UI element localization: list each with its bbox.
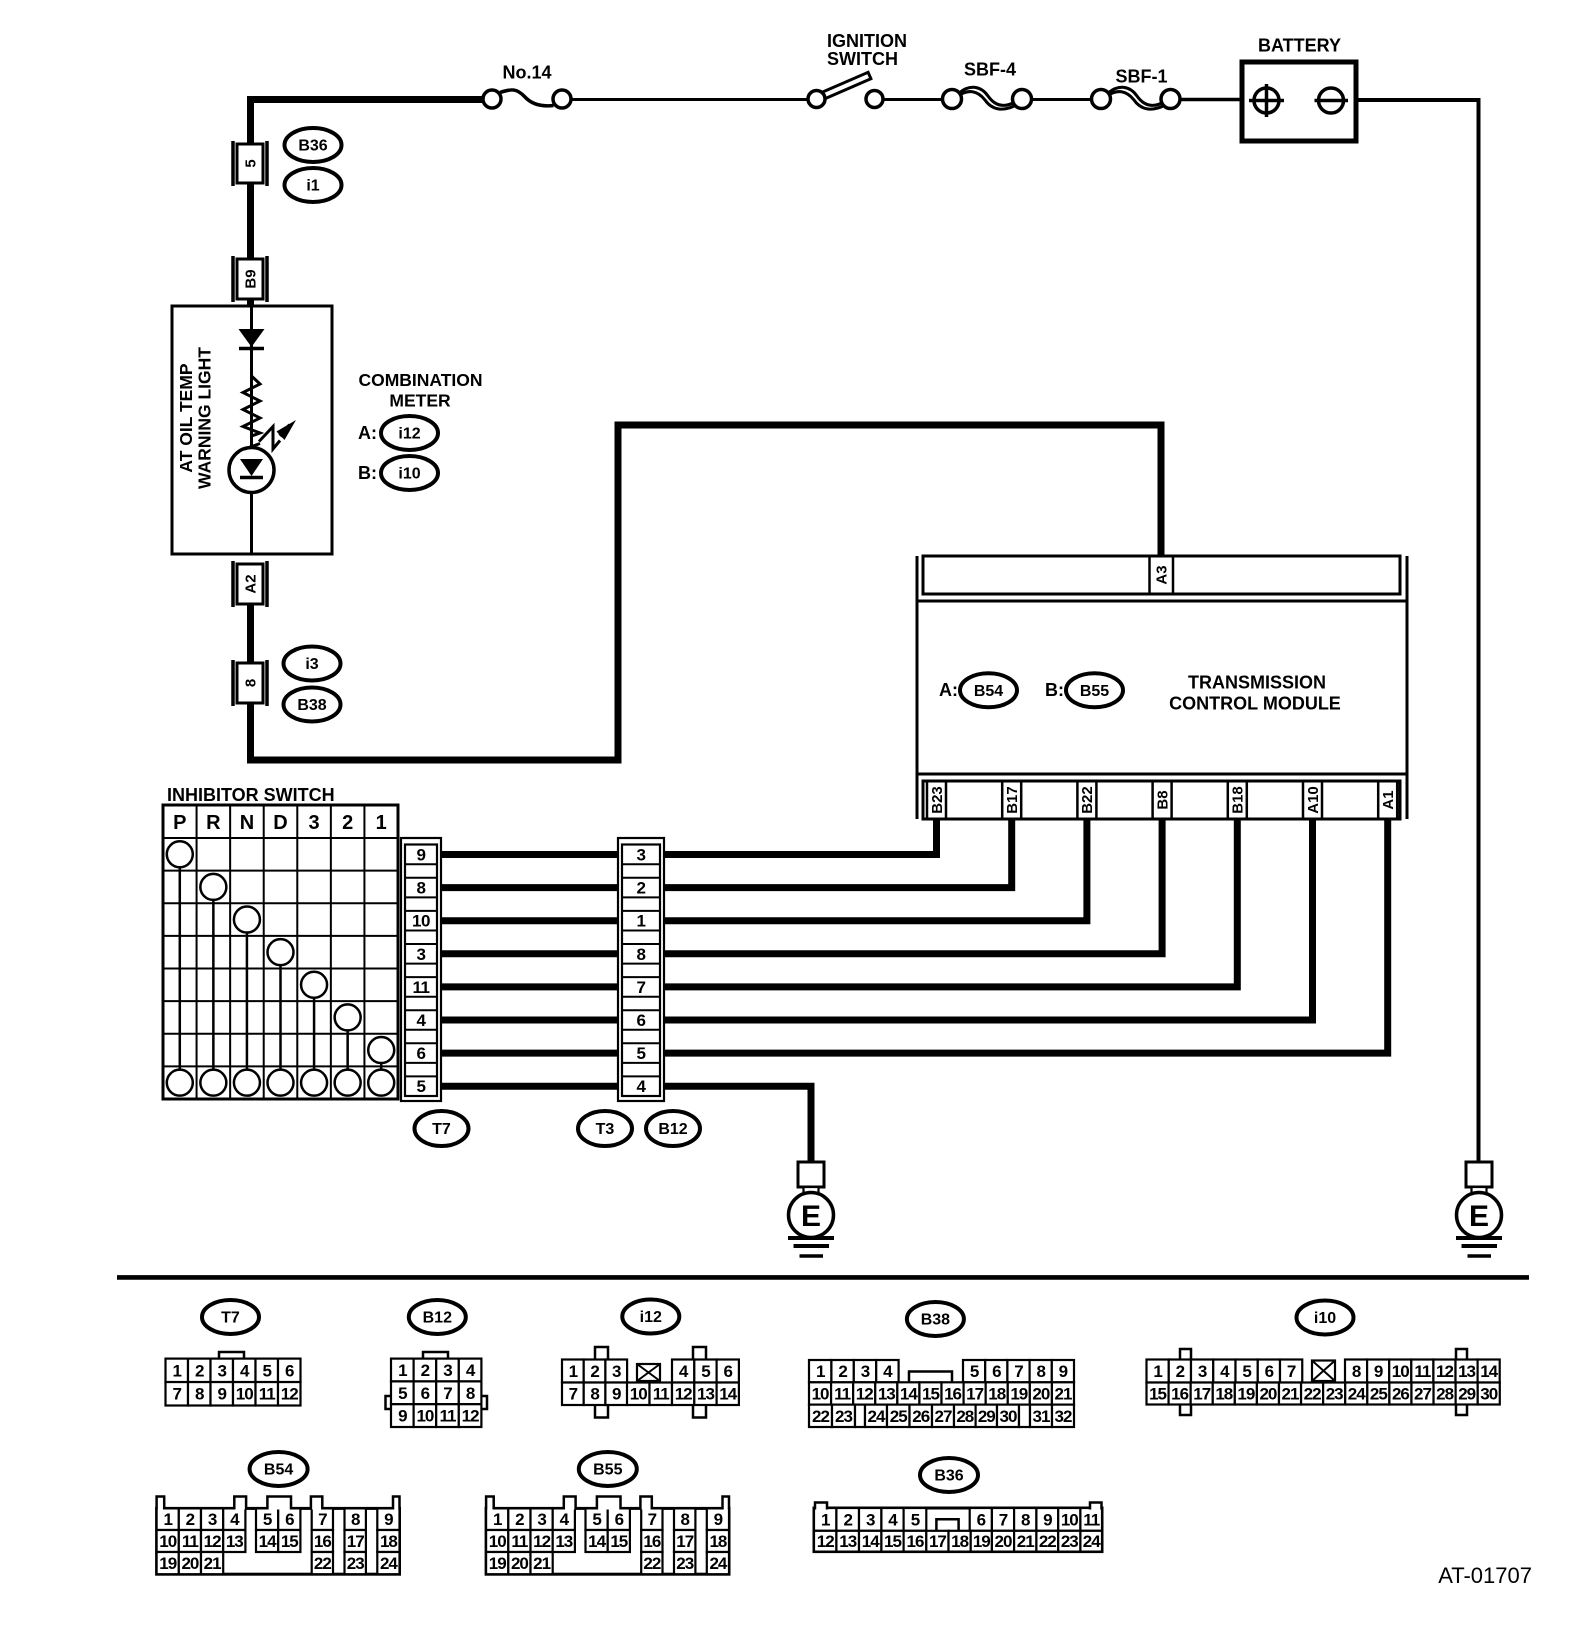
svg-text:18: 18 — [988, 1384, 1005, 1403]
svg-text:3: 3 — [866, 1510, 875, 1529]
svg-text:5: 5 — [417, 1077, 426, 1096]
svg-text:1: 1 — [816, 1362, 825, 1381]
svg-text:21: 21 — [1054, 1384, 1071, 1403]
svg-text:1: 1 — [569, 1362, 578, 1381]
svg-text:No.14: No.14 — [502, 62, 551, 82]
svg-text:18: 18 — [380, 1532, 397, 1551]
svg-text:1: 1 — [493, 1510, 502, 1529]
svg-text:BATTERY: BATTERY — [1258, 35, 1341, 55]
svg-text:i3: i3 — [305, 656, 318, 673]
svg-text:5: 5 — [701, 1362, 710, 1381]
svg-text:B38: B38 — [297, 697, 326, 714]
svg-text:29: 29 — [978, 1407, 995, 1426]
svg-text:E: E — [801, 1200, 821, 1233]
svg-text:8: 8 — [242, 679, 259, 687]
svg-text:B23: B23 — [929, 786, 946, 814]
svg-text:6: 6 — [637, 1011, 646, 1030]
svg-text:B55: B55 — [593, 1462, 622, 1479]
svg-text:1: 1 — [173, 1361, 182, 1380]
svg-text:21: 21 — [1017, 1532, 1034, 1551]
svg-text:14: 14 — [719, 1385, 737, 1404]
svg-text:28: 28 — [956, 1407, 973, 1426]
svg-text:27: 27 — [935, 1407, 952, 1426]
svg-text:TRANSMISSION: TRANSMISSION — [1188, 672, 1326, 692]
svg-text:8: 8 — [680, 1510, 689, 1529]
svg-text:A10: A10 — [1305, 786, 1322, 814]
svg-text:23: 23 — [347, 1554, 364, 1573]
svg-text:1: 1 — [163, 1510, 172, 1529]
svg-text:1: 1 — [637, 912, 646, 931]
svg-text:24: 24 — [1083, 1532, 1101, 1551]
svg-text:23: 23 — [835, 1407, 852, 1426]
svg-text:B38: B38 — [921, 1312, 950, 1329]
svg-text:B54: B54 — [264, 1462, 293, 1479]
svg-text:20: 20 — [181, 1554, 198, 1573]
svg-text:16: 16 — [906, 1532, 923, 1551]
svg-text:14: 14 — [900, 1384, 918, 1403]
svg-text:3: 3 — [417, 945, 426, 964]
svg-text:8: 8 — [351, 1510, 360, 1529]
svg-text:SBF-1: SBF-1 — [1115, 66, 1167, 86]
svg-text:10: 10 — [630, 1385, 647, 1404]
svg-text:9: 9 — [1043, 1510, 1052, 1529]
svg-text:8: 8 — [1021, 1510, 1030, 1529]
svg-text:19: 19 — [489, 1554, 506, 1573]
svg-text:2: 2 — [421, 1361, 430, 1380]
svg-text:10: 10 — [489, 1532, 506, 1551]
svg-text:10: 10 — [159, 1532, 176, 1551]
svg-text:21: 21 — [204, 1554, 221, 1573]
svg-text:3: 3 — [537, 1510, 546, 1529]
svg-text:11: 11 — [834, 1384, 851, 1403]
svg-text:13: 13 — [555, 1532, 572, 1551]
svg-text:9: 9 — [384, 1510, 393, 1529]
svg-text:9: 9 — [612, 1385, 621, 1404]
svg-text:7: 7 — [999, 1510, 1008, 1529]
svg-text:2: 2 — [637, 879, 646, 898]
svg-text:9: 9 — [714, 1510, 723, 1529]
svg-text:IGNITION: IGNITION — [827, 31, 907, 51]
svg-text:i10: i10 — [1314, 1310, 1336, 1327]
svg-text:2: 2 — [515, 1510, 524, 1529]
svg-text:A:: A: — [358, 423, 377, 443]
svg-text:2: 2 — [1176, 1362, 1185, 1381]
svg-text:6: 6 — [285, 1361, 294, 1380]
svg-text:7: 7 — [1287, 1362, 1296, 1381]
svg-text:3: 3 — [309, 812, 320, 834]
svg-text:10: 10 — [236, 1385, 253, 1404]
svg-text:SWITCH: SWITCH — [827, 49, 898, 69]
svg-text:6: 6 — [724, 1362, 733, 1381]
svg-text:22: 22 — [643, 1554, 660, 1573]
svg-text:20: 20 — [1259, 1384, 1276, 1403]
svg-text:B18: B18 — [1230, 786, 1247, 814]
svg-text:5: 5 — [592, 1510, 601, 1529]
svg-text:T7: T7 — [221, 1310, 240, 1327]
svg-text:5: 5 — [263, 1361, 272, 1380]
svg-text:INHIBITOR SWITCH: INHIBITOR SWITCH — [167, 785, 335, 805]
svg-text:R: R — [206, 812, 221, 834]
svg-text:A1: A1 — [1380, 790, 1397, 809]
svg-text:7: 7 — [443, 1384, 452, 1403]
svg-text:8: 8 — [417, 879, 426, 898]
svg-text:22: 22 — [1304, 1384, 1321, 1403]
svg-text:11: 11 — [440, 1407, 457, 1426]
svg-text:13: 13 — [226, 1532, 243, 1551]
svg-text:P: P — [173, 812, 186, 834]
svg-text:7: 7 — [637, 978, 646, 997]
svg-text:8: 8 — [590, 1385, 599, 1404]
svg-text:B8: B8 — [1154, 790, 1171, 809]
svg-text:14: 14 — [588, 1532, 606, 1551]
svg-text:15: 15 — [1149, 1384, 1166, 1403]
svg-text:A3: A3 — [1153, 565, 1170, 584]
svg-text:24: 24 — [868, 1407, 886, 1426]
svg-text:D: D — [273, 812, 287, 834]
svg-text:25: 25 — [1370, 1384, 1387, 1403]
svg-text:2: 2 — [195, 1361, 204, 1380]
svg-text:3: 3 — [1198, 1362, 1207, 1381]
svg-text:31: 31 — [1033, 1407, 1050, 1426]
svg-text:5: 5 — [398, 1384, 407, 1403]
svg-text:18: 18 — [951, 1532, 968, 1551]
svg-text:9: 9 — [1374, 1362, 1383, 1381]
svg-text:6: 6 — [421, 1384, 430, 1403]
svg-text:7: 7 — [1014, 1362, 1023, 1381]
svg-text:15: 15 — [922, 1384, 939, 1403]
svg-text:10: 10 — [416, 1407, 433, 1426]
svg-text:T7: T7 — [432, 1121, 451, 1138]
svg-text:B:: B: — [1045, 680, 1064, 700]
svg-text:6: 6 — [1265, 1362, 1274, 1381]
svg-text:15: 15 — [281, 1532, 298, 1551]
svg-text:30: 30 — [1000, 1407, 1017, 1426]
svg-text:12: 12 — [462, 1407, 479, 1426]
svg-text:8: 8 — [637, 945, 646, 964]
svg-text:19: 19 — [159, 1554, 176, 1573]
svg-text:3: 3 — [208, 1510, 217, 1529]
svg-text:8: 8 — [195, 1385, 204, 1404]
svg-text:2: 2 — [342, 812, 353, 834]
svg-text:9: 9 — [218, 1385, 227, 1404]
svg-text:3: 3 — [861, 1362, 870, 1381]
svg-text:22: 22 — [314, 1554, 331, 1573]
svg-text:23: 23 — [1061, 1532, 1078, 1551]
svg-text:24: 24 — [1348, 1384, 1366, 1403]
svg-text:12: 12 — [1436, 1362, 1453, 1381]
svg-text:CONTROL MODULE: CONTROL MODULE — [1169, 693, 1341, 713]
svg-text:19: 19 — [1237, 1384, 1254, 1403]
svg-text:30: 30 — [1480, 1384, 1497, 1403]
svg-text:14: 14 — [259, 1532, 277, 1551]
svg-text:METER: METER — [389, 391, 451, 411]
svg-text:18: 18 — [1215, 1384, 1232, 1403]
svg-text:2: 2 — [843, 1510, 852, 1529]
svg-text:5: 5 — [242, 159, 259, 167]
svg-text:AT-01707: AT-01707 — [1438, 1563, 1532, 1588]
svg-text:12: 12 — [281, 1385, 298, 1404]
svg-text:23: 23 — [676, 1554, 693, 1573]
svg-text:22: 22 — [1039, 1532, 1056, 1551]
svg-text:15: 15 — [884, 1532, 901, 1551]
svg-text:4: 4 — [637, 1077, 647, 1096]
svg-text:18: 18 — [709, 1532, 726, 1551]
svg-text:21: 21 — [1282, 1384, 1299, 1403]
svg-text:6: 6 — [615, 1510, 624, 1529]
svg-text:22: 22 — [812, 1407, 829, 1426]
svg-text:B36: B36 — [934, 1468, 963, 1485]
svg-text:17: 17 — [929, 1532, 946, 1551]
svg-text:1: 1 — [398, 1361, 407, 1380]
svg-text:26: 26 — [912, 1407, 929, 1426]
svg-text:6: 6 — [285, 1510, 294, 1529]
svg-text:8: 8 — [466, 1384, 475, 1403]
svg-text:11: 11 — [1414, 1362, 1431, 1381]
svg-text:19: 19 — [1010, 1384, 1027, 1403]
svg-text:32: 32 — [1055, 1407, 1072, 1426]
svg-text:20: 20 — [995, 1532, 1012, 1551]
svg-text:B12: B12 — [423, 1310, 452, 1327]
svg-text:13: 13 — [839, 1532, 856, 1551]
svg-text:16: 16 — [1171, 1384, 1188, 1403]
svg-text:16: 16 — [643, 1532, 660, 1551]
svg-text:11: 11 — [1083, 1510, 1100, 1529]
svg-text:B17: B17 — [1004, 786, 1021, 814]
svg-text:6: 6 — [992, 1362, 1001, 1381]
svg-text:2: 2 — [186, 1510, 195, 1529]
svg-text:14: 14 — [862, 1532, 880, 1551]
svg-text:12: 12 — [204, 1532, 221, 1551]
svg-text:7: 7 — [648, 1510, 657, 1529]
svg-text:17: 17 — [1193, 1384, 1210, 1403]
svg-text:10: 10 — [1061, 1510, 1078, 1529]
svg-text:11: 11 — [182, 1532, 199, 1551]
svg-text:B36: B36 — [298, 138, 327, 155]
svg-text:i1: i1 — [306, 178, 319, 195]
svg-text:B22: B22 — [1079, 786, 1096, 814]
svg-text:13: 13 — [697, 1385, 714, 1404]
svg-text:A2: A2 — [242, 574, 259, 593]
svg-text:15: 15 — [610, 1532, 627, 1551]
svg-text:A:: A: — [939, 680, 958, 700]
svg-text:24: 24 — [709, 1554, 727, 1573]
svg-text:AT OIL TEMP: AT OIL TEMP — [176, 363, 196, 473]
svg-text:3: 3 — [612, 1362, 621, 1381]
svg-text:3: 3 — [637, 845, 646, 864]
svg-text:27: 27 — [1414, 1384, 1431, 1403]
svg-text:20: 20 — [511, 1554, 528, 1573]
svg-text:1: 1 — [1153, 1362, 1162, 1381]
svg-text:5: 5 — [263, 1510, 272, 1529]
svg-text:11: 11 — [413, 978, 430, 997]
svg-text:20: 20 — [1032, 1384, 1049, 1403]
svg-text:12: 12 — [817, 1532, 834, 1551]
svg-text:17: 17 — [347, 1532, 364, 1551]
svg-text:3: 3 — [443, 1361, 452, 1380]
svg-text:29: 29 — [1458, 1384, 1475, 1403]
svg-text:14: 14 — [1480, 1362, 1498, 1381]
svg-text:25: 25 — [890, 1407, 907, 1426]
svg-text:T3: T3 — [596, 1121, 615, 1138]
svg-text:9: 9 — [398, 1407, 407, 1426]
svg-text:9: 9 — [417, 845, 426, 864]
svg-text:17: 17 — [966, 1384, 983, 1403]
svg-text:SBF-4: SBF-4 — [964, 59, 1016, 79]
svg-text:10: 10 — [812, 1384, 829, 1403]
svg-text:24: 24 — [380, 1554, 398, 1573]
svg-text:12: 12 — [675, 1385, 692, 1404]
svg-text:11: 11 — [259, 1385, 276, 1404]
svg-text:9: 9 — [1059, 1362, 1068, 1381]
svg-text:5: 5 — [911, 1510, 920, 1529]
svg-text:WARNING LIGHT: WARNING LIGHT — [195, 347, 215, 489]
svg-text:7: 7 — [173, 1385, 182, 1404]
svg-text:6: 6 — [977, 1510, 986, 1529]
svg-text:26: 26 — [1392, 1384, 1409, 1403]
svg-text:7: 7 — [569, 1385, 578, 1404]
svg-text:13: 13 — [878, 1384, 895, 1403]
svg-text:4: 4 — [417, 1011, 427, 1030]
svg-text:7: 7 — [318, 1510, 327, 1529]
svg-text:17: 17 — [676, 1532, 693, 1551]
svg-text:COMBINATION: COMBINATION — [358, 370, 482, 390]
svg-text:5: 5 — [970, 1362, 979, 1381]
svg-text:1: 1 — [821, 1510, 830, 1529]
svg-text:2: 2 — [838, 1362, 847, 1381]
svg-text:1: 1 — [376, 812, 387, 834]
svg-text:B9: B9 — [242, 269, 259, 288]
svg-text:5: 5 — [1242, 1362, 1251, 1381]
svg-text:12: 12 — [856, 1384, 873, 1403]
svg-text:i12: i12 — [398, 426, 420, 443]
svg-text:19: 19 — [973, 1532, 990, 1551]
svg-text:21: 21 — [533, 1554, 550, 1573]
svg-text:10: 10 — [1392, 1362, 1409, 1381]
svg-text:i10: i10 — [398, 466, 420, 483]
svg-text:8: 8 — [1036, 1362, 1045, 1381]
svg-text:N: N — [240, 812, 254, 834]
svg-text:10: 10 — [412, 912, 430, 931]
svg-text:6: 6 — [417, 1044, 426, 1063]
svg-text:2: 2 — [590, 1362, 599, 1381]
svg-text:11: 11 — [511, 1532, 528, 1551]
svg-text:B54: B54 — [974, 683, 1003, 700]
svg-text:8: 8 — [1352, 1362, 1361, 1381]
svg-text:i12: i12 — [640, 1309, 662, 1326]
svg-text:12: 12 — [533, 1532, 550, 1551]
svg-text:16: 16 — [314, 1532, 331, 1551]
svg-text:28: 28 — [1436, 1384, 1453, 1403]
svg-text:13: 13 — [1458, 1362, 1475, 1381]
svg-text:3: 3 — [218, 1361, 227, 1380]
svg-text:11: 11 — [653, 1385, 670, 1404]
svg-text:5: 5 — [637, 1044, 646, 1063]
svg-text:B12: B12 — [658, 1121, 687, 1138]
svg-text:B55: B55 — [1080, 683, 1109, 700]
svg-text:B:: B: — [358, 463, 377, 483]
svg-text:16: 16 — [944, 1384, 961, 1403]
svg-text:23: 23 — [1326, 1384, 1343, 1403]
svg-text:E: E — [1469, 1200, 1489, 1233]
